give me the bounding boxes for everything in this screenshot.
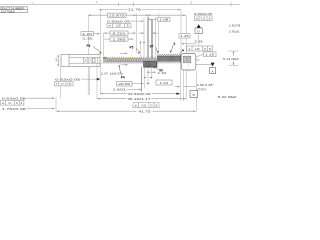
ext line x158 [158,14,160,54]
gdt small frame [195,16,213,21]
svg-text:0.50±0.05: 0.50±0.05 [194,12,213,16]
svg-text:0.20: 0.20 [116,25,121,28]
dim chamfer line [175,86,181,88]
end cap centerline [196,59,200,61]
leader dot [182,49,184,51]
svg-text:41.75: 41.75 [139,110,151,114]
svg-text:0.15: 0.15 [201,19,206,21]
thread crests gray [146,57,148,59]
thread crest line [103,58,157,60]
table frame [0,6,28,8]
sheet border line [0,3,240,5]
left tube outline [61,55,100,67]
svg-text:(TYP): (TYP) [197,88,206,92]
svg-text:1.15: 1.15 [205,53,215,57]
dim 11.76 [99,9,181,11]
ext low x151 [150,66,152,79]
svg-text:0.63±0.05: 0.63±0.05 [55,78,80,82]
gdt frame 0.20 B [107,24,131,28]
svg-text:1.365: 1.365 [113,38,127,42]
svg-text:36.19±1.17: 36.19±1.17 [128,97,151,101]
end cap inner [183,56,191,62]
ext low x141 [141,67,143,96]
svg-text:1.75±0.08: 1.75±0.08 [2,107,26,111]
ext line x186 [185,15,187,53]
svg-text:5.32 REF: 5.32 REF [218,95,237,99]
ext low x144b [144,67,146,89]
datum A flag [196,64,213,66]
svg-text:11.76: 11.76 [128,8,141,12]
svg-text:(1.19): (1.19) [83,36,93,40]
svg-text:33.69±0.09: 33.69±0.09 [128,92,151,96]
right thread body [157,56,181,61]
ext low x186 [185,70,187,100]
svg-text:P4: P4 [121,76,125,80]
svg-text:0.50 X 45°: 0.50 X 45° [197,83,215,87]
dim 36.19 [97,98,186,100]
svg-text:9: 9 [174,42,176,46]
svg-text:1.33: 1.33 [158,71,167,75]
dim 8.201 [104,32,110,34]
svg-text:P5: P5 [130,46,134,50]
thread crests orange [107,57,109,59]
right thread crests [157,54,159,56]
gdt frame low1 [55,82,74,86]
ext low x97 [96,63,98,99]
svg-text:1.16: 1.16 [180,34,189,38]
svg-text:⊕: ⊕ [56,83,58,86]
zone tick c [230,2,232,6]
svg-text:13.875: 13.875 [109,14,126,18]
ext line x181 [180,10,182,53]
dim 13.875 [88,14,186,16]
svg-text:5.14 REF: 5.14 REF [223,57,239,61]
gdt frame 0.25 D B [187,46,213,51]
datum D flag [197,24,201,28]
drive detail [83,58,85,64]
dim 0.50 box [117,82,133,87]
svg-text:1.50 REF: 1.50 REF [229,24,240,28]
svg-text:67: 67 [150,45,154,49]
dim small arrows [134,14,137,16]
ext line x100 [99,10,101,55]
zone tick b [133,2,135,6]
gdt frame low2 [1,101,24,106]
svg-text:P6: P6 [87,44,91,48]
svg-text:TABLE: TABLE [7,9,15,13]
dim 1.365 [104,38,110,40]
svg-text:0.25: 0.25 [141,105,146,108]
thread body [103,59,157,62]
left dia dim [57,55,59,67]
svg-text:D: D [151,105,153,108]
svg-text:1.601: 1.601 [113,88,127,92]
dim 1.08 [158,17,170,21]
ext line x136 [135,14,137,53]
ext line x103 [102,33,104,56]
right thread separator [157,55,181,57]
thread pitch arrow bottom [121,64,129,66]
svg-text:0.63±0.08: 0.63±0.08 [2,97,26,101]
right thread roots [157,62,159,64]
dim 1.20 box [81,32,94,36]
thread pitch arrow top [120,52,128,54]
ext low x148b [147,67,149,84]
svg-text:101: 101 [1,9,5,13]
svg-text:⌀0.50: ⌀0.50 [118,82,131,86]
svg-text:1.08: 1.08 [159,18,169,22]
flange width arrows [140,42,142,44]
part centerline [57,59,201,61]
svg-text:0.50±0.05: 0.50±0.05 [107,19,130,23]
ext line x155 [155,17,157,58]
svg-text:1.01: 1.01 [160,81,170,85]
left tube shoulder [68,55,70,67]
ext low x183 [183,70,185,101]
gdt frame low3 [133,103,159,108]
ext low x60 [60,67,62,98]
thread body ticks [106,59,108,62]
svg-text:8.201: 8.201 [113,32,127,36]
zone tick a [118,2,120,6]
right thread hatch [157,56,159,61]
dim 41.75 [56,110,196,112]
left tube bore [69,57,100,59]
end cap outline [181,53,196,70]
ext line x144 [143,17,145,58]
ext low x88b [87,67,89,95]
datum B box [190,91,197,98]
ext low x57 [55,97,57,112]
svg-text:D: D [204,48,206,51]
ext line x148 [147,17,149,58]
nut bottom edge [144,66,158,68]
dim 1.15 [204,52,217,57]
right thread end edge [180,54,182,64]
svg-text:1.0° (±0.5°): 1.0° (±0.5°) [101,71,123,75]
dim 1.01 [156,80,172,85]
thread start blob [103,57,107,61]
dim 1.16 [179,34,190,38]
nut block [144,61,158,67]
svg-text:1.20: 1.20 [82,32,92,36]
svg-text:5: 5 [191,0,193,4]
svg-text:2: 2 [96,0,98,4]
ext low x196 [195,70,197,111]
svg-text:0.25: 0.25 [195,48,200,51]
ext line x152 [151,20,153,58]
dim flange width arrows [139,32,145,34]
svg-text:B: B [193,93,195,97]
svg-text:⊕: ⊕ [2,102,4,105]
dim 33.69 [100,93,180,95]
nut hatch [143,61,145,66]
svg-text:1.25: 1.25 [56,57,58,62]
svg-text:⊕: ⊕ [196,18,198,21]
dim 0.35 [181,43,196,45]
dim 5.14 REF [229,50,239,52]
svg-text:1: 1 [32,0,34,4]
ext low x180 [179,64,181,101]
ext low x100b [99,62,101,94]
thread bottom edge [103,61,157,63]
ext line x88 [88,15,90,57]
svg-text:2.91±0.25: 2.91±0.25 [229,30,240,34]
